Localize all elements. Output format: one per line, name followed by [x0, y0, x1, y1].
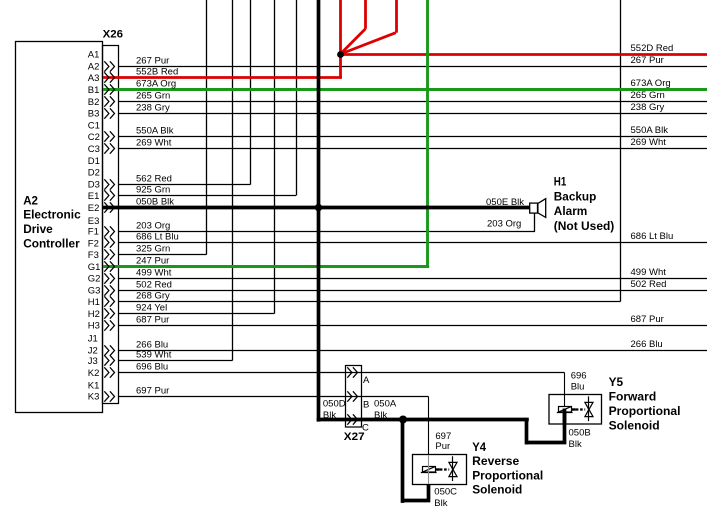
controller A2 label — [23, 194, 81, 251]
svg-text:673A Org: 673A Org — [631, 78, 671, 89]
solenoid Y5 valve symbol — [576, 408, 585, 410]
svg-text:Y5: Y5 — [609, 375, 624, 389]
svg-text:F1: F1 — [88, 227, 99, 238]
svg-text:050B: 050B — [569, 428, 591, 439]
wire 247 Pur (green) from X26 G1 — [103, 265, 429, 268]
svg-text:D2: D2 — [88, 168, 100, 179]
svg-text:325 Grn: 325 Grn — [136, 244, 170, 255]
svg-text:A2: A2 — [88, 62, 100, 73]
controller A2 box — [16, 42, 103, 413]
wire red diagonal branch 1 — [364, 0, 367, 29]
wire 265 Grn from X26 B2 — [119, 101, 707, 103]
wire red diagonal branch 2 — [395, 0, 398, 33]
svg-text:Solenoid: Solenoid — [609, 419, 660, 433]
wire red riser A3 up to junction — [339, 54, 342, 78]
svg-text:Blk: Blk — [434, 498, 447, 509]
wire riser for X26 F3 to top edge — [206, 0, 208, 255]
svg-text:673A Org: 673A Org — [136, 79, 176, 90]
wire 203 Org from X26 F1 — [119, 231, 536, 233]
solenoid Y4 box — [413, 455, 467, 485]
svg-text:265 Grn: 265 Grn — [136, 91, 170, 102]
svg-text:J1: J1 — [88, 333, 98, 344]
svg-text:K2: K2 — [88, 368, 100, 379]
svg-text:050A: 050A — [374, 398, 397, 409]
svg-text:Blu: Blu — [571, 381, 585, 392]
wire 499 Wht from X26 G2 — [119, 278, 707, 280]
svg-text:266 Blu: 266 Blu — [631, 339, 663, 350]
svg-text:686 Lt Blu: 686 Lt Blu — [631, 231, 674, 242]
label Y5 Forward Proportional Solenoid — [609, 375, 681, 433]
svg-text:H3: H3 — [88, 321, 100, 332]
wire 687 Pur from X26 H3 — [119, 325, 707, 327]
wire riser for X26 J3 to top edge — [232, 0, 234, 361]
wire 050B Blk from X26 E2 — [103, 206, 530, 210]
solenoid Y5 box — [549, 395, 602, 425]
svg-text:562 Red: 562 Red — [136, 174, 172, 185]
wire 050B Blk to Y5 — [525, 418, 529, 444]
svg-text:F3: F3 — [88, 250, 99, 261]
wire 050A Blk from X27 to junction — [403, 418, 529, 422]
label H1 Backup Alarm — [554, 175, 615, 233]
svg-text:Proportional: Proportional — [472, 468, 543, 482]
solenoid Y4 valve symbol — [440, 468, 449, 470]
wire riser for X26 D3 to top edge — [250, 0, 252, 185]
wire 238 Gry from X26 B3 — [119, 113, 707, 115]
wire riser for X26 H2 to top edge — [274, 0, 276, 314]
svg-text:238 Gry: 238 Gry — [136, 103, 170, 114]
wire 266 Blu from X26 J2 — [119, 350, 707, 352]
wire 697 Pur from X26 K3 — [119, 396, 429, 398]
svg-text:D3: D3 — [88, 179, 100, 190]
svg-text:Pur: Pur — [435, 441, 450, 452]
svg-text:Forward: Forward — [609, 390, 657, 404]
svg-text:499 Wht: 499 Wht — [631, 267, 667, 278]
svg-text:539 Wht: 539 Wht — [136, 350, 172, 361]
svg-text:267 Pur: 267 Pur — [136, 56, 169, 67]
svg-text:C2: C2 — [88, 132, 100, 143]
svg-text:697: 697 — [435, 431, 451, 442]
svg-text:G3: G3 — [88, 285, 101, 296]
solenoid Y5 coil — [559, 407, 572, 413]
wire 050C Blk to Y4 — [401, 420, 405, 503]
solenoid Y4 coil — [423, 467, 436, 473]
svg-text:B2: B2 — [88, 97, 100, 108]
svg-text:687 Pur: 687 Pur — [631, 314, 664, 325]
wire 325 Grn from X26 F3 — [119, 254, 207, 256]
wire 673A Org (green) from X26 B1 — [103, 88, 707, 91]
svg-text:265 Grn: 265 Grn — [631, 90, 665, 101]
wire 539 Wht from X26 J3 — [119, 360, 233, 362]
svg-text:B: B — [363, 399, 369, 410]
wire 050D Blk horizontal to X27 C — [317, 418, 403, 422]
svg-text:552D Red: 552D Red — [631, 43, 674, 54]
svg-text:X27: X27 — [344, 431, 365, 443]
svg-text:687 Pur: 687 Pur — [136, 315, 169, 326]
svg-text:F2: F2 — [88, 238, 99, 249]
wire red vertical to top edge — [339, 0, 342, 54]
speaker H1 backup alarm — [530, 203, 538, 213]
svg-text:X26: X26 — [103, 28, 123, 40]
wire riser for X26 H1 to top edge — [620, 0, 622, 302]
label Y4 Reverse Proportional Solenoid — [472, 440, 543, 497]
svg-text:Controller: Controller — [23, 237, 80, 251]
svg-text:K1: K1 — [88, 381, 100, 392]
svg-text:925 Grn: 925 Grn — [136, 185, 170, 196]
svg-text:Blk: Blk — [374, 410, 387, 421]
svg-text:A3: A3 — [88, 73, 100, 84]
svg-text:H2: H2 — [88, 309, 100, 320]
svg-text:C3: C3 — [88, 144, 100, 155]
svg-text:Alarm: Alarm — [554, 204, 588, 218]
junction dot red — [337, 51, 344, 58]
wire riser for X26 E1 to top edge — [296, 0, 298, 196]
wire green riser G1 to top edge — [426, 0, 429, 267]
label 697 Pur — [435, 431, 451, 452]
wire 502 Red from X26 G3 — [119, 290, 707, 292]
wire 686 Lt Blu from X26 F2 — [119, 242, 707, 244]
svg-text:Y4: Y4 — [472, 440, 486, 454]
connector X26 body — [103, 46, 119, 404]
label 050D Blk — [323, 398, 346, 421]
svg-text:Electronic: Electronic — [23, 207, 81, 221]
wire 924 Yel from X26 H2 — [119, 313, 275, 315]
junction dot E2 — [315, 204, 322, 211]
svg-text:Drive: Drive — [23, 222, 53, 236]
label 050B Blk — [569, 428, 591, 451]
label 050A Blk — [374, 398, 397, 421]
svg-text:050B Blk: 050B Blk — [136, 197, 174, 208]
svg-text:697 Pur: 697 Pur — [136, 386, 169, 397]
wire 696 Blu drop to Y5 — [564, 373, 566, 408]
connector X27 body — [346, 366, 362, 428]
svg-text:552B Red: 552B Red — [136, 67, 178, 78]
svg-text:550A Blk: 550A Blk — [631, 125, 669, 136]
svg-text:Proportional: Proportional — [609, 404, 681, 418]
svg-text:050D: 050D — [323, 398, 346, 409]
svg-text:D1: D1 — [88, 156, 100, 167]
svg-text:050E Blk: 050E Blk — [486, 197, 524, 208]
svg-text:J3: J3 — [88, 356, 98, 367]
svg-text:A: A — [363, 375, 370, 386]
wire 696 Blu from X26 K2 — [119, 372, 565, 374]
X26 contact chevrons — [104, 61, 114, 401]
label 050C Blk — [434, 486, 457, 509]
wire 697 Pur drop to Y4 — [428, 397, 430, 456]
svg-text:A2: A2 — [23, 194, 38, 208]
svg-text:267 Pur: 267 Pur — [631, 55, 664, 66]
svg-text:203 Org: 203 Org — [487, 219, 521, 230]
svg-text:269 Wht: 269 Wht — [136, 138, 172, 149]
svg-text:247 Pur: 247 Pur — [136, 256, 169, 267]
wire 203 Org riser to alarm — [534, 213, 536, 231]
svg-text:050C: 050C — [434, 486, 457, 497]
svg-text:B1: B1 — [88, 85, 100, 96]
svg-text:H1: H1 — [554, 175, 567, 189]
svg-text:696 Blu: 696 Blu — [136, 362, 168, 373]
svg-text:H1: H1 — [88, 297, 100, 308]
wire 550A Blk from X26 C2 — [119, 136, 707, 138]
svg-text:K3: K3 — [88, 391, 100, 402]
wire 925 Grn from X26 E1 — [119, 195, 297, 197]
svg-text:E2: E2 — [88, 203, 100, 214]
svg-text:Blk: Blk — [569, 439, 582, 450]
svg-text:C1: C1 — [88, 120, 100, 131]
wire 050D Blk thick vertical bus — [317, 0, 321, 422]
X27 contact chevrons — [347, 367, 357, 424]
junction dot 050A — [399, 416, 407, 424]
label 696 Blu — [571, 371, 587, 393]
svg-text:A1: A1 — [88, 50, 100, 61]
wire 268 Gry from X26 H1 — [119, 301, 621, 303]
svg-text:G1: G1 — [88, 262, 101, 273]
svg-text:E3: E3 — [88, 216, 100, 227]
svg-text:Backup: Backup — [554, 189, 597, 203]
svg-text:268 Gry: 268 Gry — [136, 291, 170, 302]
svg-text:Reverse: Reverse — [472, 454, 519, 468]
wire 269 Wht from X26 C3 — [119, 148, 707, 150]
wire 562 Red from X26 D3 — [119, 184, 251, 186]
svg-text:550A Blk: 550A Blk — [136, 126, 174, 137]
svg-text:499 Wht: 499 Wht — [136, 268, 172, 279]
svg-text:696: 696 — [571, 371, 587, 382]
svg-text:203 Org: 203 Org — [136, 221, 170, 232]
svg-text:269 Wht: 269 Wht — [631, 137, 667, 148]
wire 552B Red from X26 A3 — [103, 76, 342, 79]
svg-text:B3: B3 — [88, 109, 100, 120]
svg-text:J2: J2 — [88, 345, 98, 356]
svg-text:Blk: Blk — [323, 410, 336, 421]
svg-text:686 Lt Blu: 686 Lt Blu — [136, 232, 179, 243]
svg-text:Solenoid: Solenoid — [472, 483, 522, 497]
svg-text:238 Gry: 238 Gry — [631, 102, 665, 113]
svg-text:E1: E1 — [88, 191, 100, 202]
svg-text:502 Red: 502 Red — [136, 280, 172, 291]
svg-text:924 Yel: 924 Yel — [136, 303, 167, 314]
svg-text:G2: G2 — [88, 274, 101, 285]
svg-text:(Not Used): (Not Used) — [554, 219, 615, 233]
wire 552D Red to right edge — [341, 53, 707, 56]
wire 267 Pur from X26 A2 — [119, 66, 707, 68]
svg-text:502 Red: 502 Red — [631, 279, 667, 290]
